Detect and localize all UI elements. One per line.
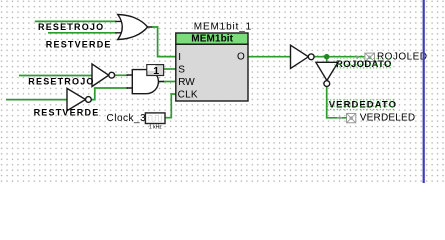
- svg-text:VERDELED: VERDELED: [360, 113, 416, 124]
- label MEM1bit_1: [194, 21, 252, 32]
- pin CLK label: [178, 89, 198, 100]
- output pin VERDELED symbol: [347, 113, 356, 122]
- pin O label: [237, 52, 245, 63]
- output pin arrow (VERDELED): [337, 116, 343, 120]
- label VERDELED: [360, 113, 416, 124]
- selection dots ROJODATO: [334, 58, 393, 70]
- svg-text:1 kHz: 1 kHz: [149, 125, 162, 131]
- svg-text:Clock_3: Clock_3: [107, 113, 147, 124]
- wire W10: Clock_3 output to MEM1bit pin CLK: [165, 94, 176, 118]
- pin I label: [178, 52, 181, 63]
- wire W13: junction to inverter U5: [326, 57, 328, 62]
- inverter U2 (RESETROJO row): [92, 64, 115, 87]
- pin S label: [178, 65, 185, 76]
- svg-text:MEM1bit_1: MEM1bit_1: [194, 21, 252, 32]
- wire W12: inverter U4 output to ROJOLED: [314, 56, 364, 58]
- selection dots VERDEDATO: [327, 98, 396, 111]
- wire W14: inverter U5 output to VERDELED: [327, 87, 347, 118]
- inverter U3 (RESTVERDE row): [67, 88, 91, 110]
- svg-text:CLK: CLK: [178, 89, 198, 100]
- output pin ROJOLED symbol: [365, 53, 375, 61]
- output pin arrow (ROJOLED): [354, 55, 360, 59]
- svg-text:RESETROJO: RESETROJO: [38, 22, 104, 32]
- title text MEM1bit: [191, 34, 233, 45]
- svg-text:O: O: [237, 52, 245, 63]
- label ROJOLED: [377, 52, 427, 63]
- wire W5: inverter U2 output to AND gate input: [115, 74, 128, 76]
- or gate U1: [115, 15, 152, 40]
- MEM1bit block body: [176, 44, 248, 101]
- svg-text:I: I: [178, 52, 181, 63]
- svg-text:RW: RW: [178, 77, 195, 88]
- label Clock_3: [107, 113, 147, 124]
- MEM1bit title bar: [176, 33, 248, 44]
- label VERDEDATO: [329, 100, 397, 111]
- node A junction dot: [324, 54, 330, 60]
- svg-text:RESTVERDE: RESTVERDE: [46, 39, 112, 49]
- svg-text:RESETROJO: RESETROJO: [28, 77, 94, 87]
- label ROJODATO: [336, 59, 392, 70]
- label RESETROJO (top): [38, 22, 104, 32]
- svg-text:RESTVERDE: RESTVERDE: [34, 107, 100, 117]
- clock Clock_3: [145, 113, 165, 124]
- wire W6: RESTVERDE input to inverter U3: [6, 99, 67, 101]
- wire W8: AND gate output to MEM1bit pin RW: [163, 81, 176, 83]
- label RESETROJO (middle): [28, 77, 94, 87]
- svg-text:MEM1bit: MEM1bit: [191, 34, 233, 45]
- constant 1 component: [147, 65, 164, 77]
- label RESTVERDE (bottom): [34, 107, 100, 117]
- wire W1: RESETROJO input to OR gate pin 1: [35, 20, 116, 22]
- wire W4: RESETROJO input to inverter U2: [19, 75, 92, 77]
- wire W11: MEM1bit pin O to inverter U4: [248, 56, 290, 58]
- and gate U6: [127, 70, 165, 94]
- inverter U4 (output buffer row): [291, 45, 315, 68]
- page boundary line (blue): [423, 0, 425, 183]
- wire W9: constant 1 to MEM1bit pin S: [164, 68, 176, 70]
- label 1 kHz: [149, 125, 162, 131]
- inverter U5 (down-pointing): [316, 62, 338, 86]
- wire W7: inverter U3 output to AND gate input: [91, 88, 128, 100]
- wire W3: OR gate output to MEM1bit pin I: [152, 27, 176, 57]
- svg-text:S: S: [178, 65, 185, 76]
- pin RW label: [178, 77, 195, 88]
- wire W2: RESTVERDE input to OR gate pin 2: [48, 32, 116, 34]
- svg-text:1: 1: [153, 65, 159, 77]
- label RESTVERDE (top): [46, 39, 112, 49]
